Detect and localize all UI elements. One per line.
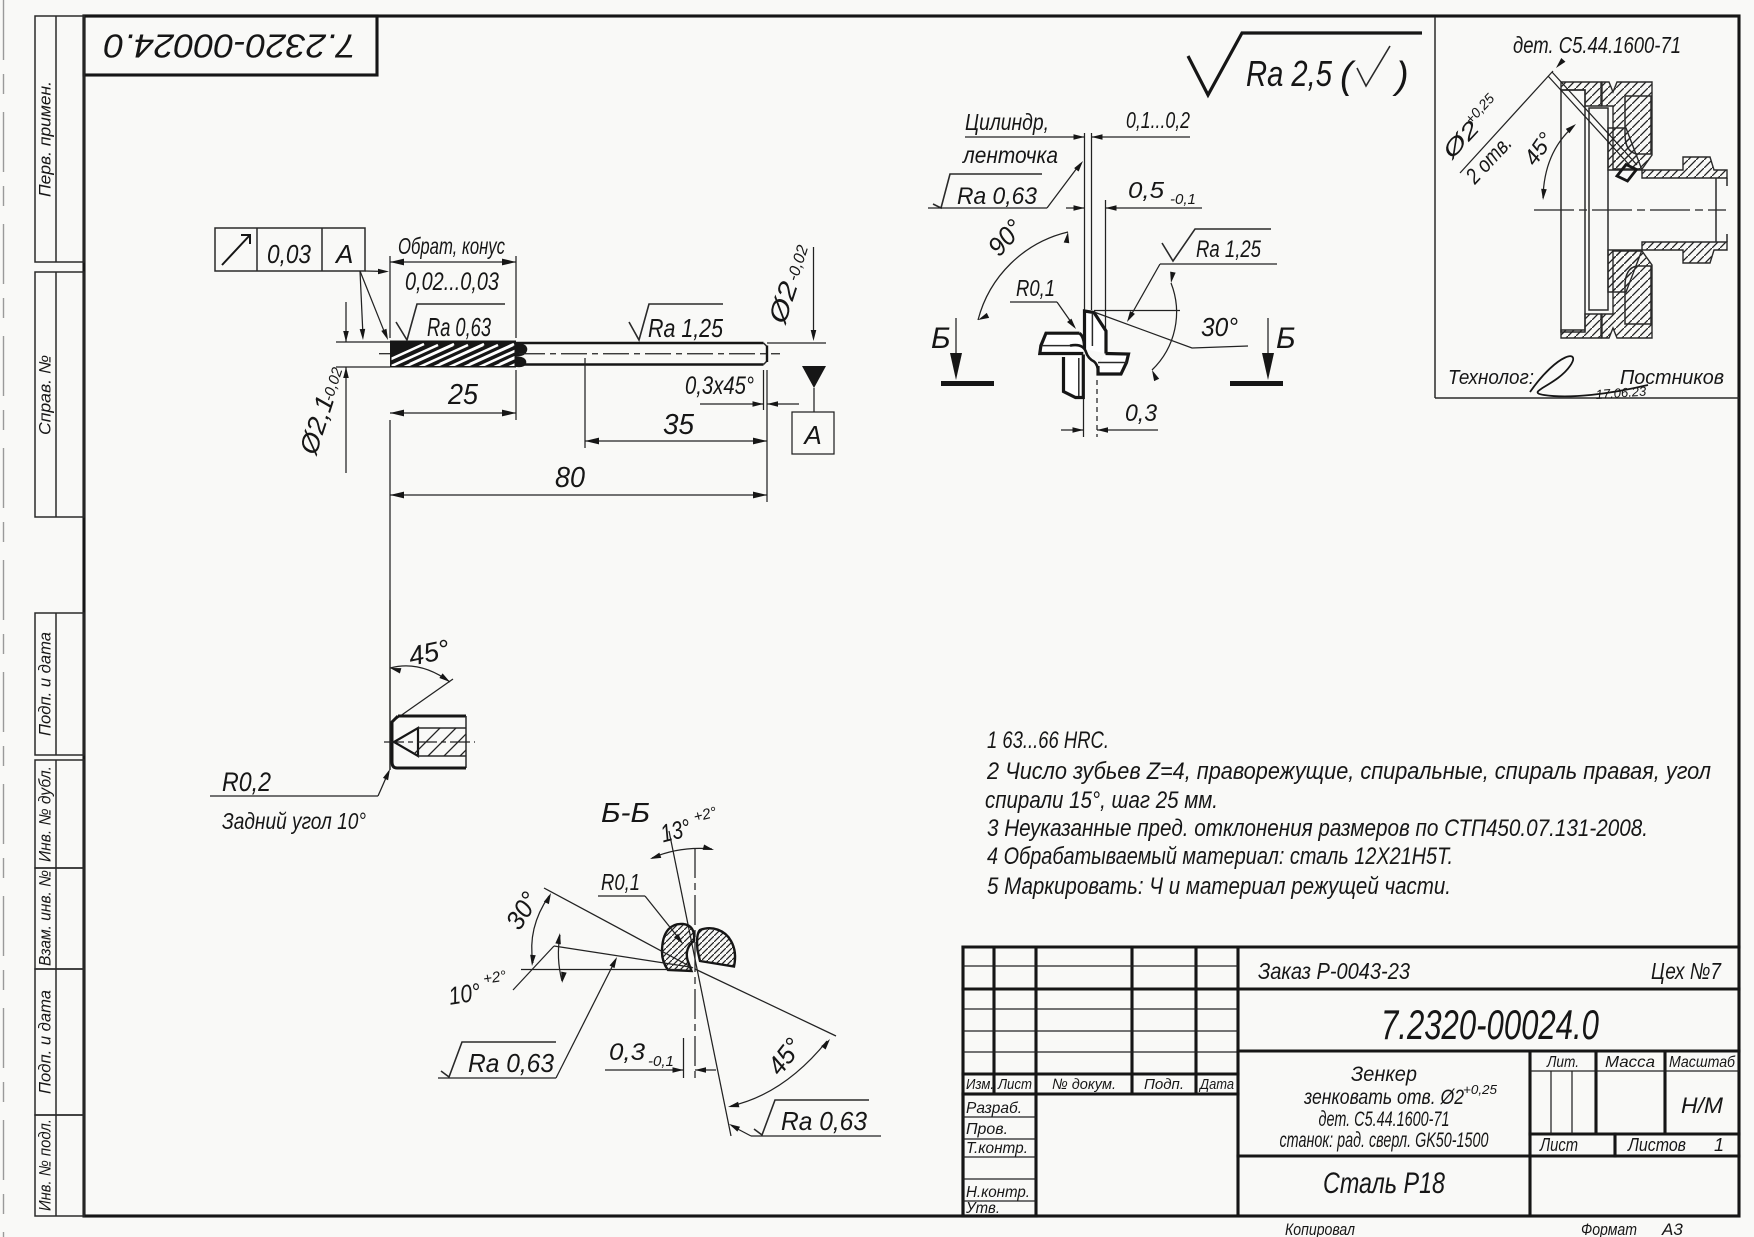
- flange: boss top wall: [1642, 157, 1727, 178]
- svg-text:Ø2: Ø2: [762, 277, 804, 328]
- svg-text:35: 35: [663, 409, 695, 441]
- general roughness mark Ra 2,5: [1188, 33, 1422, 97]
- svg-text:0,1...0,2: 0,1...0,2: [1126, 107, 1190, 133]
- svg-text:30°: 30°: [499, 887, 545, 935]
- front view: Ra 1,25 with leader: [1125, 229, 1277, 323]
- svg-text:): ): [1392, 55, 1409, 97]
- svg-text:+2°: +2°: [482, 968, 507, 988]
- technical notes: [985, 727, 1711, 900]
- svg-text:Заказ Р-0043-23: Заказ Р-0043-23: [1258, 958, 1410, 984]
- tip detail: extension to enlarged tip: [389, 600, 391, 770]
- svg-text:дет. С5.44.1600-71: дет. С5.44.1600-71: [1513, 32, 1681, 58]
- flange: bore web top: [1608, 128, 1642, 170]
- svg-text:Утв.: Утв.: [965, 1200, 1000, 1217]
- section plane Б right: [1230, 318, 1296, 384]
- Б-Б: Ra 0,63 right: [728, 1100, 881, 1136]
- svg-text:Инв. № дубл.: Инв. № дубл.: [36, 766, 54, 862]
- title block material: [1323, 1167, 1445, 1200]
- Б-Б: 45 degree line and arc: [695, 969, 836, 1110]
- dimension 80: [390, 420, 767, 770]
- dimension: Обрат, конус 0,02...0,03: [390, 233, 516, 338]
- below frame captions: [1285, 1220, 1683, 1237]
- svg-text:Ra 0,63: Ra 0,63: [781, 1106, 867, 1136]
- dimension Ø2,1-0,02 left: [293, 302, 390, 473]
- svg-text:Подп.: Подп.: [1144, 1076, 1184, 1093]
- svg-text:Ra 0,63: Ra 0,63: [427, 312, 491, 342]
- svg-text:(: (: [1340, 55, 1356, 97]
- detail box frame (top right): [1435, 17, 1739, 398]
- svg-text:45°: 45°: [761, 1032, 808, 1080]
- Б-Б: 13 degree angle arc and label: [649, 804, 718, 862]
- flange: bore web bottom: [1608, 250, 1642, 292]
- title block list row: [1238, 1134, 1739, 1156]
- front view: labels Цилиндр, ленточка: [961, 109, 1058, 168]
- svg-text:Копировал: Копировал: [1285, 1220, 1355, 1237]
- svg-text:Ra 2,5: Ra 2,5: [1246, 53, 1333, 94]
- svg-text:R0,1: R0,1: [1016, 275, 1055, 301]
- svg-text:Ra 1,25: Ra 1,25: [648, 313, 723, 343]
- flange: hatched top lobe: [1602, 82, 1652, 169]
- title block small grid left: [963, 947, 1238, 1094]
- Б-Б: dimension 0,3-0,1: [605, 1038, 716, 1078]
- dimension 25: [390, 370, 516, 420]
- Б-Б: blade right lobe: [697, 928, 735, 966]
- svg-text:17.06.23: 17.06.23: [1595, 383, 1647, 402]
- front view: dimension 0,5-0,1: [1066, 177, 1202, 330]
- title block document number: [1238, 1001, 1739, 1051]
- main view: axis centerline: [379, 353, 780, 355]
- svg-text:13°: 13°: [658, 814, 694, 848]
- tip detail: 45 degree chamfer angle: [389, 634, 453, 719]
- svg-text:Н/М: Н/М: [1681, 1093, 1724, 1118]
- svg-text:ленточка: ленточка: [961, 142, 1058, 168]
- flange: boss end face: [1716, 178, 1727, 242]
- Б-Б: 13 degree line: [669, 831, 731, 1136]
- svg-text:Формат: Формат: [1581, 1220, 1637, 1237]
- svg-text:Подп. и дата: Подп. и дата: [36, 632, 54, 736]
- runout tolerance frame 0,03 A: [215, 228, 365, 271]
- chamfer dimension 0,3x45: [685, 370, 799, 410]
- flange: hatched top cap: [1561, 82, 1601, 106]
- svg-text:Ra 0,63: Ra 0,63: [468, 1048, 554, 1078]
- svg-text:Б-Б: Б-Б: [601, 797, 650, 828]
- main view: cutting part with spiral flutes: [374, 341, 588, 375]
- svg-text:-0,1: -0,1: [1170, 191, 1196, 208]
- section plane Б left: [931, 318, 994, 384]
- svg-text:R0,2: R0,2: [222, 767, 271, 797]
- svg-text:+2°: +2°: [692, 804, 719, 826]
- svg-text:Пров.: Пров.: [966, 1121, 1008, 1138]
- front view: dimension 0,1...0,2: [965, 107, 1190, 140]
- dimension Ø2-0,02 and view A arrow: [762, 243, 834, 454]
- svg-text:-0,1: -0,1: [648, 1053, 674, 1070]
- left margin column boxes: [35, 16, 84, 262]
- main view: shank: [516, 343, 767, 365]
- svg-text:Взам. инв. №: Взам. инв. №: [36, 870, 54, 966]
- svg-text:Масса: Масса: [1605, 1054, 1655, 1071]
- svg-text:Технолог:: Технолог:: [1448, 367, 1534, 389]
- flange: 45 degree angle arc: [1519, 122, 1578, 200]
- svg-text:зенковать отв. Ø2: зенковать отв. Ø2: [1303, 1086, 1464, 1109]
- svg-text:30°: 30°: [1201, 312, 1238, 342]
- svg-text:Листов: Листов: [1627, 1135, 1686, 1155]
- svg-text:3 Неуказанные пред. отклонени: 3 Неуказанные пред. отклонения размеров …: [987, 815, 1648, 842]
- svg-text:Лист: Лист: [997, 1076, 1032, 1093]
- svg-text:Лист: Лист: [1539, 1135, 1578, 1155]
- title block lit massa masshtab: [1530, 1051, 1739, 1134]
- svg-text:Цилиндр,: Цилиндр,: [965, 109, 1049, 135]
- svg-text:А: А: [802, 420, 821, 450]
- front view: blade lower extension lines: [1084, 380, 1098, 437]
- title block name cell: [1280, 1051, 1531, 1216]
- flange: boss bottom wall: [1642, 242, 1727, 263]
- svg-text:Разраб.: Разраб.: [966, 1100, 1022, 1117]
- svg-text:Н.контр.: Н.контр.: [966, 1184, 1030, 1201]
- top-left inverted document number box: [84, 16, 377, 75]
- front view: R0,1 label: [1010, 275, 1078, 331]
- Б-Б: R0,1 label: [598, 869, 685, 946]
- svg-text:Изм.: Изм.: [966, 1076, 994, 1093]
- surface finish Ra 0,63 on flutes: [396, 304, 505, 342]
- flange: centerline: [1534, 209, 1726, 211]
- flange: left rim band: [1561, 90, 1585, 332]
- svg-text:Подп. и дата: Подп. и дата: [36, 990, 54, 1094]
- svg-text:+0,25: +0,25: [1461, 90, 1497, 127]
- svg-text:Масштаб: Масштаб: [1669, 1054, 1736, 1071]
- title block outer: [963, 947, 1739, 1216]
- svg-text:Обрат, конус: Обрат, конус: [398, 233, 505, 259]
- leader from tolerance frame to tool corner: [360, 269, 391, 341]
- title block order row: [1258, 958, 1722, 984]
- flange: hatched bottom cap: [1561, 314, 1601, 338]
- svg-text:Инв. № подл.: Инв. № подл.: [36, 1119, 54, 1211]
- svg-text:1: 1: [1714, 1135, 1724, 1155]
- svg-text:дет. С5.44.1600-71: дет. С5.44.1600-71: [1319, 1108, 1450, 1131]
- technologist signature row: [1448, 356, 1724, 402]
- flange: countersink hole lines at 45deg: [1548, 72, 1637, 181]
- paper left edge artifact: [3, 0, 5, 1237]
- Б-Б: centerline vertical: [694, 848, 696, 1078]
- svg-text:№ докум.: № докум.: [1052, 1076, 1116, 1093]
- flange: second band: [1589, 108, 1608, 310]
- svg-text:25: 25: [447, 379, 479, 411]
- svg-text:0,03: 0,03: [267, 239, 311, 269]
- svg-text:Ra 0,63: Ra 0,63: [957, 183, 1038, 210]
- front view: 30 degree angle: [1094, 272, 1248, 381]
- svg-text:0,3: 0,3: [1125, 400, 1158, 427]
- svg-text:Перв. примен.: Перв. примен.: [36, 81, 54, 197]
- svg-text:10°: 10°: [447, 978, 483, 1011]
- detail box: part number label: [1513, 32, 1681, 58]
- svg-text:Цех №7: Цех №7: [1651, 958, 1722, 984]
- front view: dimension 0,3: [1061, 400, 1158, 433]
- svg-text:45°: 45°: [1519, 128, 1559, 170]
- front view: 90 degree arc: [977, 213, 1071, 322]
- tip detail: enlarged tool tip: [384, 716, 512, 770]
- svg-text:0,02...0,03: 0,02...0,03: [405, 268, 499, 296]
- section Б-Б title: [601, 797, 650, 828]
- svg-text:-0,02: -0,02: [320, 365, 347, 403]
- svg-text:Лит.: Лит.: [1546, 1054, 1579, 1071]
- svg-text:Б: Б: [931, 322, 951, 355]
- svg-text:Б: Б: [1276, 322, 1296, 355]
- svg-text:80: 80: [555, 462, 585, 494]
- svg-text:Дата: Дата: [1198, 1076, 1234, 1093]
- svg-text:R0,1: R0,1: [601, 869, 640, 895]
- svg-text:станок: рад. сверл. GK50-1500: станок: рад. сверл. GK50-1500: [1280, 1129, 1489, 1152]
- svg-text:-0,02: -0,02: [785, 243, 812, 283]
- svg-text:0,5: 0,5: [1128, 177, 1164, 203]
- svg-text:спирали 15°, шаг 25 мм.: спирали 15°, шаг 25 мм.: [985, 787, 1218, 814]
- front view: Ra 0,63 with leader: [928, 159, 1085, 210]
- svg-text:Т.контр.: Т.контр.: [966, 1140, 1028, 1157]
- svg-text:Справ. №: Справ. №: [36, 355, 54, 435]
- front view: pinwheel blade body: [1040, 311, 1129, 398]
- svg-text:7.2320-00024.0: 7.2320-00024.0: [103, 27, 356, 64]
- svg-text:А3: А3: [1661, 1220, 1683, 1237]
- tip detail: R0,2 and rear angle labels: [210, 767, 393, 834]
- front view: margin extension lines: [1085, 133, 1092, 310]
- dimension 35: [585, 358, 767, 502]
- flange: hatched bottom lobe: [1602, 251, 1652, 338]
- svg-text:Задний угол 10°: Задний угол 10°: [222, 808, 366, 834]
- svg-text:4 Обрабатываемый материал: ст: 4 Обрабатываемый материал: сталь 12Х21Н5…: [987, 843, 1453, 870]
- svg-text:+0,25: +0,25: [1463, 1082, 1498, 1097]
- svg-text:А: А: [334, 239, 353, 269]
- svg-text:0,3: 0,3: [609, 1039, 646, 1066]
- svg-text:45°: 45°: [406, 634, 453, 672]
- svg-text:2 Число зубьев Z=4, праворежу: 2 Число зубьев Z=4, праворежущие, спирал…: [986, 758, 1711, 785]
- Б-Б: Ra 0,63 left: [438, 956, 619, 1078]
- Б-Б: 10 degree line and arc: [447, 933, 690, 1011]
- svg-text:Ra 1,25: Ra 1,25: [1196, 236, 1262, 263]
- surface finish Ra 1,25 on shank: [629, 304, 723, 343]
- flange: Ø2 +0,25 2 отв. leader: [1436, 58, 1565, 189]
- svg-text:0,3х45°: 0,3х45°: [685, 372, 754, 400]
- title block signature rows: [963, 1094, 1036, 1217]
- svg-text:Сталь Р18: Сталь Р18: [1323, 1167, 1445, 1200]
- svg-text:7.2320-00024.0: 7.2320-00024.0: [1381, 1001, 1599, 1048]
- Б-Б: blade left lobe: [662, 924, 694, 971]
- svg-text:5 Маркировать: Ч и материал р: 5 Маркировать: Ч и материал режущей част…: [987, 873, 1451, 900]
- svg-text:1 63...66 HRC.: 1 63...66 HRC.: [987, 727, 1109, 754]
- Б-Б: 30 degree line and arc: [499, 887, 693, 970]
- svg-text:Зенкер: Зенкер: [1351, 1063, 1417, 1086]
